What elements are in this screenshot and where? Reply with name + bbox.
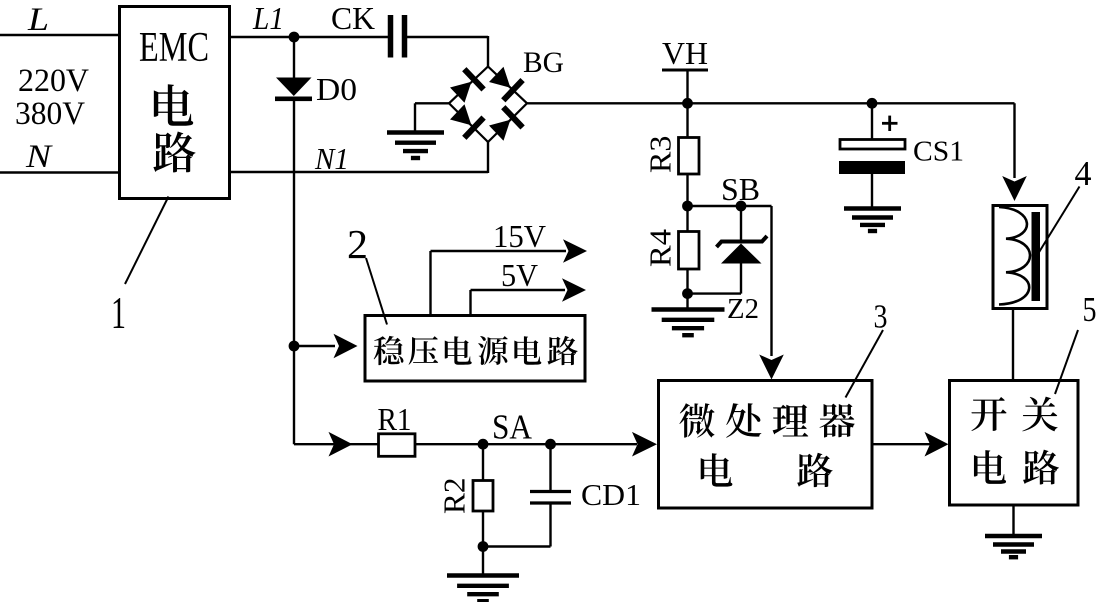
svg-text:380V: 380V: [15, 96, 85, 132]
svg-text:15V: 15V: [493, 218, 546, 254]
svg-text:R3: R3: [643, 136, 678, 174]
svg-text:R2: R2: [437, 478, 472, 515]
svg-text:R1: R1: [378, 401, 412, 437]
svg-text:4: 4: [1075, 154, 1092, 193]
svg-text:SB: SB: [721, 171, 760, 207]
svg-text:N1: N1: [314, 141, 349, 176]
svg-text:CK: CK: [331, 0, 375, 36]
svg-text:CS1: CS1: [913, 136, 964, 168]
svg-text:N: N: [25, 139, 53, 175]
svg-text:VH: VH: [662, 35, 708, 71]
svg-text:220V: 220V: [18, 63, 89, 99]
svg-text:Z2: Z2: [727, 293, 759, 325]
svg-text:EMC: EMC: [139, 25, 209, 71]
svg-text:SA: SA: [492, 408, 533, 447]
svg-text:BG: BG: [523, 46, 564, 79]
svg-text:L: L: [27, 2, 49, 38]
svg-text:2: 2: [347, 221, 368, 267]
svg-text:CD1: CD1: [581, 477, 641, 512]
svg-text:D0: D0: [316, 71, 357, 107]
svg-text:R4: R4: [643, 228, 678, 267]
svg-text:L1: L1: [252, 0, 284, 36]
svg-text:3: 3: [874, 299, 888, 336]
svg-text:5: 5: [1083, 290, 1097, 329]
svg-text:1: 1: [111, 288, 126, 338]
svg-text:5V: 5V: [501, 257, 538, 293]
